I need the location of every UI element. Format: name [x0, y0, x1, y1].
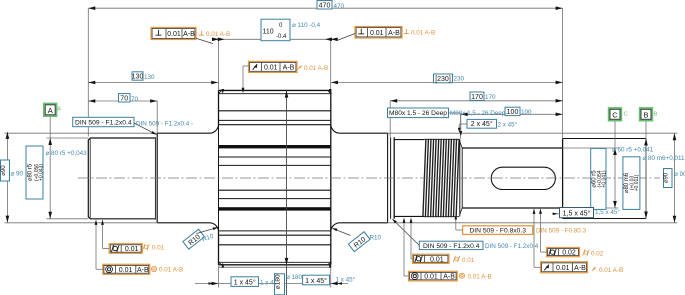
svg-text:2 x 45°: 2 x 45°: [498, 121, 518, 129]
shaft right end face: [645, 139, 647, 219]
R10 right box: [348, 232, 370, 252]
extension line d90 top left: [5, 132, 158, 134]
d90 right section end face: [387, 133, 389, 223]
gear bottom chamfer line: [219, 261, 331, 263]
FCF perpendicularity right: [355, 27, 402, 39]
dimension d80m6 line: [645, 139, 647, 219]
FCF concentricity left leader: [96, 268, 103, 270]
dim d180 label box: [275, 274, 285, 295]
R10 left box: [183, 229, 205, 249]
FCF perpendicularity left: [151, 28, 196, 40]
thread undercut DIN509 lines: [390, 137, 392, 218]
FCF runout right: [541, 262, 588, 273]
extension line d90 start x157: [156, 101, 158, 133]
dimension 230 value box: [434, 74, 453, 83]
svg-text:C: C: [624, 112, 628, 118]
dimension 110 tolerance box: [261, 19, 290, 41]
extension line right x562.6: [562, 8, 564, 138]
d90 left section bottom edge: [157, 222, 209, 224]
d80/d90 shoulder undercut DIN509: [154, 137, 156, 219]
DIN F1.2 right leader: [393, 220, 420, 246]
chamfer 1.5x45 leader arrow: [552, 213, 560, 215]
dimension 110 line: [213, 38, 261, 40]
dimension 70 value box: [119, 94, 131, 102]
svg-text:0.01: 0.01: [424, 274, 438, 281]
svg-text:⌀90: ⌀90: [664, 172, 670, 183]
fillet R10 bottom-left of gear: [210, 223, 219, 232]
FCF concentricity mid leader: [404, 275, 409, 277]
FCF cylindricity left leader: [103, 247, 110, 249]
dimension 230 line: [331, 81, 563, 83]
gear bottom edge ghost line: [219, 266, 331, 268]
svg-text:0.01: 0.01: [264, 65, 278, 72]
svg-text:1,5 x 45°: 1,5 x 45°: [563, 210, 591, 218]
d90 right section top edge: [340, 132, 388, 134]
DIN F0.8 box: [463, 226, 533, 235]
svg-text:[230]: [230]: [435, 76, 451, 83]
svg-text:0.01 A-B: 0.01 A-B: [206, 31, 230, 38]
dimension 70 line: [88, 100, 157, 102]
svg-text:M80x 1.5 - 26 Deep: M80x 1.5 - 26 Deep: [389, 110, 447, 117]
svg-text:0.02: 0.02: [591, 250, 604, 257]
datum A stem: [49, 116, 51, 138]
dimension 100 value box: [505, 107, 520, 115]
gear right face: [330, 90, 332, 264]
M80 thread flanks hatch: [423, 139, 426, 217]
dimension d80 left line: [49, 138, 51, 219]
svg-text:M80x 1,5 - 26 Deep-: M80x 1,5 - 26 Deep-: [450, 110, 507, 117]
FCF concentricity mid ghost: [459, 273, 464, 278]
d60 keyway section top edge: [462, 147, 562, 149]
svg-text:0.01 A-B: 0.01 A-B: [411, 30, 435, 37]
svg-text:⌀ 90: ⌀ 90: [11, 170, 24, 177]
dimension 170 line: [390, 100, 562, 102]
svg-text:A-B: A-B: [388, 30, 400, 37]
d60 r5 label box: [591, 148, 606, 209]
extension line d60 bottom right: [563, 207, 619, 209]
DIN 509 left leader: [134, 123, 156, 134]
DIN 509 left box: [73, 117, 134, 126]
svg-text:2 x 45°: 2 x 45°: [471, 120, 493, 128]
d80 section bottom edge: [90, 218, 155, 220]
FCF perpendicularity left leader: [196, 38, 213, 43]
extension line d80 bottom left: [47, 218, 89, 220]
gear teeth lines: [219, 110, 331, 112]
svg-text:110: 110: [263, 29, 274, 36]
svg-text:DIN 509 - F1.2x0.4: DIN 509 - F1.2x0.4: [423, 243, 480, 250]
extension line d60 top right: [563, 147, 619, 149]
svg-text:DIN 509 - F1.2x0.4 -: DIN 509 - F1.2x0.4 -: [136, 121, 193, 128]
d80 m6 end section top edge: [563, 138, 646, 140]
svg-text:0.01: 0.01: [167, 31, 181, 38]
svg-text:⌀180: ⌀180: [275, 274, 282, 289]
svg-text:0.01 A-B: 0.01 A-B: [304, 65, 328, 72]
FCF concentricity left ghost: [151, 266, 156, 271]
dimension 170 value box: [470, 92, 484, 100]
svg-text:0.01: 0.01: [119, 267, 133, 274]
svg-text:0.01: 0.01: [370, 30, 384, 37]
svg-text:0.01: 0.01: [462, 257, 475, 264]
d60 section end / step face: [562, 139, 564, 219]
svg-text:⌀ 80 m6+0,011: ⌀ 80 m6+0,011: [643, 155, 685, 162]
datum B: [640, 108, 653, 121]
DIN F1.2 right box: [419, 241, 483, 249]
FCF circular runout top ghost: [298, 65, 303, 70]
extension line thread start x390: [389, 101, 391, 137]
gear tooth root band lower: [219, 207, 331, 210]
fillet R10 bottom-right of gear: [331, 223, 340, 232]
d60 keyway section bottom edge: [462, 207, 562, 209]
svg-text:A-B: A-B: [283, 65, 295, 72]
dimension d90 left box: [1, 160, 10, 181]
svg-text:70: 70: [120, 95, 128, 102]
svg-text:A: A: [57, 107, 61, 113]
chamfer 2x45 box: [467, 119, 497, 128]
svg-text:100: 100: [507, 109, 519, 116]
extension line d90 bottom right: [388, 222, 678, 224]
d80 r5 label box: [26, 146, 43, 199]
M80 callout leader: [449, 112, 461, 114]
svg-text:DIN 509 - F1.2x0.4: DIN 509 - F1.2x0.4: [75, 119, 132, 126]
FCF cylindricity left: [109, 244, 142, 254]
shaft centerline: [78, 177, 660, 179]
gear corner chamfer diagonals: [219, 90, 222, 93]
d80 m6 label box: [623, 157, 640, 210]
FCF cylindricity left ghost: [143, 244, 150, 250]
FCF cylindricity right leader: [541, 251, 547, 253]
svg-text:100: 100: [521, 109, 532, 116]
R10 left leader: [197, 228, 217, 234]
M80 thread section top edge: [394, 139, 424, 141]
FCF concentricity left: [103, 264, 150, 274]
chamfer 1x45 left box: [231, 277, 259, 287]
svg-text:470: 470: [319, 2, 331, 9]
gear top chamfer arrow left: [222, 89, 225, 94]
FCF cylindricity mid: [413, 254, 449, 263]
svg-text:+0.041): +0.041): [602, 170, 608, 187]
extension line d90 top right: [388, 132, 678, 134]
svg-text:+0.043): +0.043): [38, 164, 44, 181]
gear body left face full: [218, 90, 220, 264]
extension line d80 top left: [47, 137, 89, 139]
gear top chamfer line: [219, 93, 331, 95]
dimension d90 right box: [664, 169, 673, 188]
datum C stem: [614, 122, 616, 148]
svg-text:70: 70: [131, 96, 139, 103]
svg-text:⌀ 80 r5 +0,043: ⌀ 80 r5 +0,043: [46, 150, 88, 157]
d80 m6 end section bottom edge: [563, 218, 646, 220]
svg-text:130: 130: [132, 74, 144, 81]
svg-text:⌀ 180: ⌀ 180: [286, 274, 303, 281]
FCF runout right ghost: [592, 266, 597, 271]
DIN F0.8 leader: [456, 229, 463, 231]
svg-text:A: A: [48, 106, 53, 115]
svg-text:0.01: 0.01: [430, 256, 444, 263]
FCF perpendicularity right ghost: [404, 29, 409, 34]
gear bottom chamfer arrow right: [329, 263, 332, 268]
FCF circular runout top: [249, 61, 298, 72]
dimension 470 line: [88, 7, 562, 9]
FCF cylindricity mid leader: [411, 258, 413, 260]
gear bottom edge: [219, 264, 331, 266]
gear bottom chamfer arrow left: [222, 263, 225, 268]
dimension d180 line vertical: [286, 91, 288, 295]
svg-text:A-B: A-B: [137, 267, 149, 274]
extension line gear bottom chamfer right: [330, 266, 332, 288]
d90 right section bottom edge: [340, 222, 388, 224]
dimension d60 line: [614, 148, 616, 208]
dimension d90 right line: [674, 133, 676, 223]
FCF concentricity mid: [409, 271, 458, 281]
svg-text:0.01 A-B: 0.01 A-B: [599, 267, 623, 274]
d90 left section top edge: [157, 132, 209, 134]
keyway slot: [491, 167, 555, 189]
svg-text:DIN 509 - F0.8x0.3: DIN 509 - F0.8x0.3: [469, 227, 526, 234]
R10 right leader: [334, 229, 351, 236]
gear tooth root band upper: [219, 145, 331, 148]
chamfer 1x45 right box: [303, 275, 330, 285]
FCF cylindricity right ghost: [583, 249, 590, 255]
svg-text:-0.4: -0.4: [276, 34, 287, 40]
svg-text:B: B: [643, 110, 648, 119]
svg-text:⌀ 60 r5 +0,041: ⌀ 60 r5 +0,041: [612, 147, 654, 154]
gear top chamfer arrow right: [329, 89, 332, 94]
svg-text:A-B: A-B: [574, 265, 586, 272]
extension line gear bottom chamfer left: [218, 266, 220, 288]
svg-text:0.01: 0.01: [125, 246, 139, 253]
svg-text:170: 170: [485, 94, 496, 101]
dimension chamfer bottom line: [195, 283, 348, 285]
svg-text:130: 130: [144, 74, 155, 81]
svg-text:DIN 509 - F0.80.3: DIN 509 - F0.80.3: [536, 228, 587, 235]
extension line left end x88: [87, 8, 89, 136]
chamfer 1.5x45 box: [560, 208, 594, 218]
M80 callout box: [388, 108, 449, 118]
datum C: [609, 108, 622, 121]
svg-text:⌀90: ⌀90: [1, 165, 7, 176]
svg-text:0.01 A-B: 0.01 A-B: [468, 273, 492, 280]
svg-text:+0.011): +0.011): [634, 174, 640, 191]
svg-text:0.01 A-B: 0.01 A-B: [159, 267, 183, 274]
fillet R10 top-right of gear: [331, 124, 340, 133]
svg-text:170: 170: [471, 94, 483, 101]
svg-text:A-B: A-B: [443, 274, 455, 281]
M80 thread section bottom edge: [394, 215, 424, 217]
dimension 470 value box: [317, 1, 332, 10]
extension line gear left face x218.5: [218, 40, 220, 90]
FCF runout right leader: [534, 266, 541, 268]
svg-text:A-B: A-B: [183, 31, 195, 38]
FCF cylindricity mid ghost: [453, 256, 460, 262]
thread end face: [459, 140, 461, 217]
d60 section start chamfer: [461, 148, 463, 208]
svg-text:DIN 509 - F1.2x0.4: DIN 509 - F1.2x0.4: [485, 243, 539, 250]
FCF cylindricity right: [547, 248, 580, 257]
svg-text:C: C: [612, 110, 618, 119]
svg-text:⌀ 90: ⌀ 90: [674, 171, 685, 178]
extension line gear right face x330.7: [330, 40, 332, 90]
svg-text:⌀80 r5: ⌀80 r5: [28, 163, 34, 181]
d80 section top edge: [90, 137, 155, 139]
svg-text:0.01: 0.01: [556, 265, 570, 272]
FCF perpendicularity left ghost: [199, 31, 204, 36]
FCF perpendicularity right leader: [338, 34, 356, 41]
svg-text:1 x 45°: 1 x 45°: [234, 278, 256, 286]
dimension d90 left line: [6, 132, 8, 223]
svg-text:470: 470: [334, 3, 345, 10]
dimension 100 line: [461, 113, 563, 115]
extension line d90 bottom left: [5, 222, 158, 224]
datum A: [44, 104, 57, 117]
svg-text:1 x 45°: 1 x 45°: [336, 276, 356, 284]
svg-text:B: B: [654, 112, 658, 118]
svg-text:230: 230: [454, 76, 465, 83]
thread crest top line: [424, 138, 459, 140]
svg-text:R10: R10: [370, 235, 382, 242]
extension line thread end x460.6: [460, 114, 462, 139]
fillet R10 top-left of gear: [210, 124, 219, 133]
datum B stem: [645, 122, 647, 139]
svg-text:1 x 45°: 1 x 45°: [305, 277, 327, 285]
svg-text:0.02: 0.02: [562, 250, 576, 257]
svg-text:⌀ 110 -0,4: ⌀ 110 -0,4: [292, 22, 321, 29]
thread crest bottom line: [424, 216, 459, 218]
FCF circular runout top leader: [243, 65, 249, 67]
gear top edge: [219, 89, 331, 91]
svg-text:0.01: 0.01: [152, 245, 165, 252]
shaft left end face (d80 section): [88, 138, 90, 219]
svg-text:1,5 x 45°: 1,5 x 45°: [595, 208, 620, 216]
dimension 130 value box: [132, 72, 143, 80]
gear left face: [218, 90, 220, 124]
dimension 130 line: [88, 82, 218, 84]
chamfer 2x45 leader: [459, 123, 467, 125]
